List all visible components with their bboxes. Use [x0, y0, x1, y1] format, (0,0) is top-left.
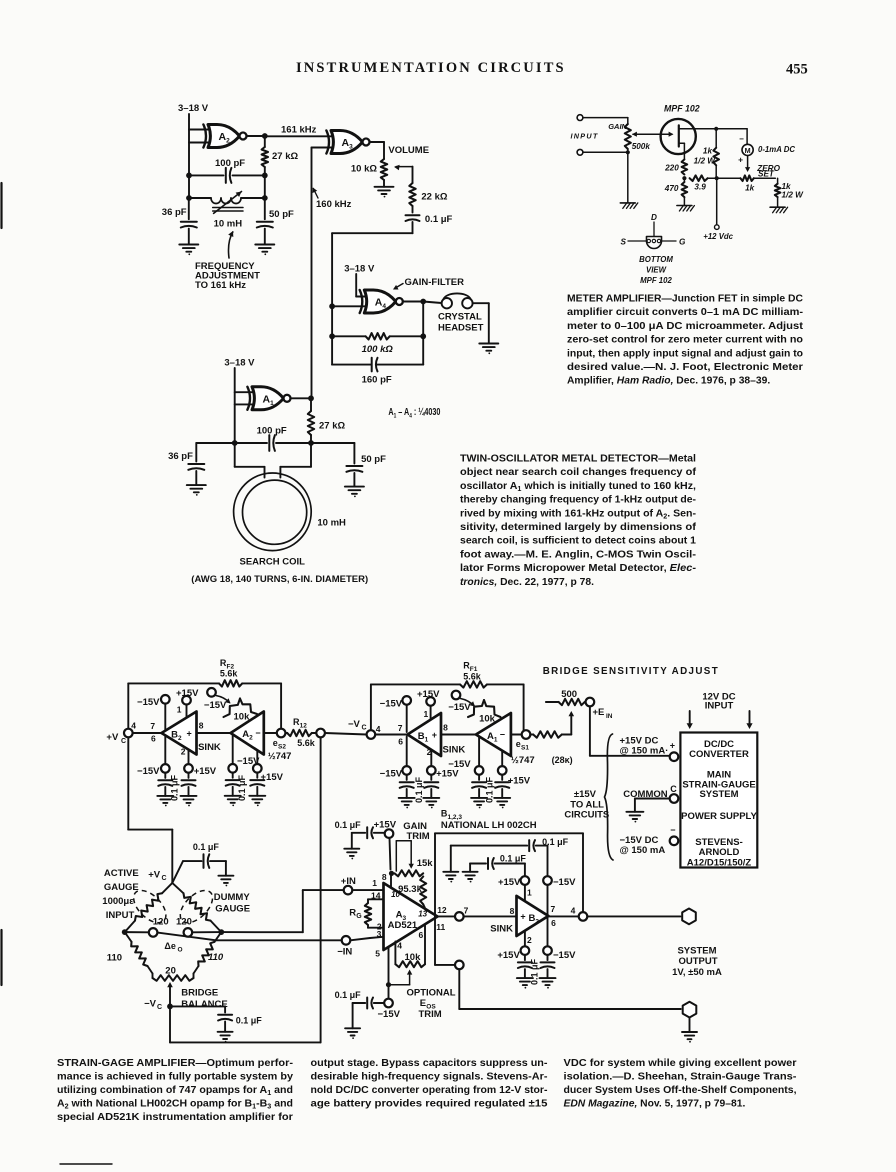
label +15V (A2 bottom)	[261, 772, 284, 783]
wire B3 output to pin4 terminal	[548, 915, 578, 917]
node junction A1 row right	[308, 440, 314, 446]
dashed ellipse active gauge	[128, 885, 172, 929]
gain trim loop	[396, 841, 414, 871]
svg-text:A1 – A4 : ¼4030: A1 – A4 : ¼4030	[388, 407, 440, 420]
node junction pot bottom	[626, 150, 630, 154]
resistor 470	[664, 178, 687, 205]
svg-text:ACTIVE: ACTIVE	[104, 868, 139, 879]
arrow frequency-adjustment callout	[228, 231, 233, 258]
label pin 10 italic	[391, 890, 400, 899]
svg-text:2: 2	[181, 747, 186, 757]
wire terminal7 to B3 input	[464, 915, 517, 917]
label -15V top (B1)	[380, 699, 403, 710]
label 100 pF (A2)	[215, 158, 245, 169]
svg-text:BRIDGE: BRIDGE	[181, 987, 218, 998]
label 120 right	[176, 916, 192, 927]
svg-text:4: 4	[571, 905, 576, 915]
svg-text:sitivity, determined largely b: sitivity, determined largely by dimensio…	[460, 522, 697, 533]
wire supply vertical into A1 inputs	[235, 368, 254, 443]
wire hex to ground	[689, 1018, 691, 1033]
svg-text:+: +	[432, 730, 437, 740]
svg-text:10 kΩ: 10 kΩ	[351, 164, 377, 175]
svg-text:BOTTOM: BOTTOM	[639, 255, 673, 264]
svg-text:470: 470	[664, 184, 679, 193]
svg-text:BRIDGE SENSITIVITY ADJUST: BRIDGE SENSITIVITY ADJUST	[543, 666, 718, 677]
svg-text:±15V: ±15V	[574, 789, 597, 800]
label pin 6 (A3)	[419, 930, 424, 940]
svg-text:STRAIN-GAGE AMPLIFIER—Optimum: STRAIN-GAGE AMPLIFIER—Optimum perfor-	[57, 1058, 294, 1069]
svg-text:VIEW: VIEW	[646, 266, 667, 275]
potentiometer 10k Eos trim	[395, 925, 425, 968]
ground (bypass 1)	[443, 872, 458, 883]
caption METER AMPLIFIER	[567, 294, 804, 387]
terminal -15V bottom (B3)	[543, 946, 552, 955]
label 100 pF (A1)	[257, 425, 287, 436]
svg-text:thereby changing frequency of: thereby changing frequency of 1-kHz outp…	[460, 495, 697, 506]
label RF1	[463, 661, 482, 682]
label SEARCH COIL	[240, 557, 306, 568]
svg-text:search coil, is sufficient to: search coil, is sufficient to detect coi…	[460, 536, 696, 547]
page header title	[296, 60, 566, 76]
label POWER SUPPLY	[681, 811, 757, 822]
wire B1 pin leads top	[407, 705, 431, 732]
terminal es2	[277, 729, 286, 738]
svg-text:+12 Vdc: +12 Vdc	[703, 232, 733, 241]
svg-text:20: 20	[165, 966, 176, 977]
resistor R12 5.6k	[285, 730, 316, 736]
svg-text:10 mH: 10 mH	[214, 219, 243, 230]
svg-text:isolation.—D. Sheehan, Strain-: isolation.—D. Sheehan, Strain-Gauge Tran…	[564, 1071, 798, 1082]
label B123 NATIONAL LH002CH	[441, 809, 537, 832]
label 110 left	[107, 953, 122, 964]
svg-text:+15V: +15V	[436, 769, 459, 780]
label INPUT	[571, 132, 599, 141]
svg-text:3–18 V: 3–18 V	[344, 263, 375, 274]
svg-text:7: 7	[150, 721, 155, 731]
label -15V offset (A1)	[448, 702, 471, 713]
wire A3 RC to A4 input	[332, 222, 412, 306]
svg-text:−: −	[739, 135, 744, 144]
svg-text:1k: 1k	[703, 147, 713, 156]
svg-text:+15V: +15V	[508, 776, 531, 787]
supply label 3-18V (A2)	[178, 103, 209, 114]
wire A2 output to es2	[264, 732, 277, 734]
op-amp A3 AD521	[384, 883, 438, 950]
svg-text:−15V: −15V	[448, 759, 471, 770]
transistor Q1 MPF102	[661, 119, 717, 159]
ground (headset)	[479, 344, 498, 355]
potentiometer GAIN 500k	[608, 122, 650, 153]
capacitor 100 pF (A2)	[226, 168, 232, 183]
svg-text:−V: −V	[144, 999, 157, 1010]
svg-text:+15V: +15V	[497, 950, 520, 961]
potentiometer VOLUME 10 kOhm	[351, 159, 387, 180]
svg-text:TRIM: TRIM	[419, 1009, 442, 1020]
svg-text:−15V: −15V	[137, 766, 160, 777]
svg-text:1/2 W: 1/2 W	[782, 191, 805, 200]
label SYSTEM OUTPUT	[672, 946, 722, 979]
svg-text:e: e	[516, 739, 521, 749]
label es2	[273, 738, 287, 751]
label +15V top (B2)	[176, 688, 199, 699]
svg-text:−15V: −15V	[204, 700, 227, 711]
label -15V offset (A2)	[204, 700, 227, 711]
label BRIDGE BALANCE	[181, 987, 227, 1010]
label +Vc (bridge)	[148, 870, 166, 883]
svg-text:A12/D15/150/Z: A12/D15/150/Z	[687, 857, 752, 868]
svg-text:INSTRUMENTATION CIRCUITS: INSTRUMENTATION CIRCUITS	[296, 60, 566, 76]
svg-text:6: 6	[398, 737, 403, 747]
ground (common)	[626, 812, 643, 823]
label MPF102	[664, 104, 700, 114]
wire 100pF feedback row (A1)	[196, 442, 354, 444]
wire supply into A4	[356, 274, 366, 297]
label -15V (A2 bottom)	[237, 756, 260, 767]
label +EIN	[593, 707, 613, 720]
potentiometer 15k gain trim	[395, 870, 424, 876]
svg-text:GAUGE: GAUGE	[215, 904, 250, 915]
label 1k (zero set)	[745, 183, 755, 192]
wire pin 5 to -15V	[388, 947, 390, 999]
terminal +15V (A3)	[385, 829, 394, 838]
terminal +Vc	[124, 729, 133, 738]
svg-text:10k: 10k	[405, 952, 422, 963]
svg-text:500k: 500k	[632, 142, 651, 151]
svg-text:−V: −V	[348, 719, 361, 730]
svg-text:27 kΩ: 27 kΩ	[272, 151, 298, 162]
svg-text:10k: 10k	[479, 714, 496, 725]
wire 100pF feedback row	[189, 174, 265, 176]
svg-text:3–18 V: 3–18 V	[178, 103, 209, 114]
label -15V DC @150mA	[620, 835, 666, 856]
label pin 13 italic	[418, 909, 427, 918]
svg-text:G: G	[356, 913, 362, 920]
terminal input lower	[577, 149, 583, 155]
svg-text:−15V: −15V	[448, 702, 471, 713]
svg-text:−: −	[255, 728, 260, 738]
svg-text:utilizing combination of 747 o: utilizing combination of 747 opamps for …	[57, 1085, 293, 1097]
wire output to connector	[587, 915, 680, 917]
svg-text:S2: S2	[278, 744, 286, 751]
svg-text:120: 120	[153, 916, 169, 927]
resistor 1k 1/2W (drain)	[694, 129, 719, 178]
terminal bridge output left	[149, 928, 158, 937]
label pin 6 (B1)	[398, 737, 403, 747]
label R12	[293, 717, 316, 748]
svg-text:foot away.—M. E. Anglin, C-MOS: foot away.—M. E. Anglin, C-MOS Twin Osci…	[460, 549, 697, 560]
package bottom view MPF102	[621, 213, 686, 249]
bypass capacitors and grounds (A1)	[471, 775, 510, 809]
svg-text:0.1 μF: 0.1 μF	[425, 214, 453, 225]
wiper arrow offset pot (A2)	[216, 696, 231, 704]
svg-text:7: 7	[551, 904, 556, 914]
label 0.1uF (bypass 2)	[500, 854, 527, 864]
wire B2 pin leads top	[165, 704, 186, 731]
terminal +EIN	[586, 698, 595, 707]
bypass capacitors and grounds (B1)	[399, 775, 440, 809]
wire A1 output to junction	[291, 397, 312, 399]
svg-text:7: 7	[464, 906, 469, 916]
wire inductor row	[189, 197, 265, 199]
svg-text:2: 2	[527, 935, 532, 945]
svg-text:@ 150 mA·: @ 150 mA·	[620, 745, 669, 756]
wire headset to ground	[473, 303, 489, 343]
svg-text:1/2 W: 1/2 W	[694, 157, 717, 166]
svg-text:50 pF: 50 pF	[269, 209, 294, 220]
label pin 4 (A3)	[397, 940, 402, 950]
node junction left 100pF row	[186, 173, 192, 179]
svg-text:0.1 μF: 0.1 μF	[335, 820, 362, 830]
wire A3 lower input from 160kHz line	[312, 148, 334, 400]
svg-text:1: 1	[177, 704, 182, 714]
label pin 14 (A3)	[371, 890, 381, 900]
label -Vc	[348, 719, 367, 732]
label es1	[516, 739, 530, 752]
svg-text:36 pF: 36 pF	[162, 207, 187, 218]
label +Vc	[106, 732, 126, 745]
label coil spec	[191, 574, 368, 585]
gate A2 (1/4 4030)	[203, 125, 246, 148]
potentiometer 20 bridge balance	[153, 966, 194, 981]
svg-text:SEARCH COIL: SEARCH COIL	[240, 557, 306, 568]
terminal optional Eos trim	[455, 961, 464, 970]
arrow gain-filter callout	[393, 284, 403, 290]
resistor 28k output	[530, 731, 571, 737]
wire +Vc to B2	[133, 732, 161, 734]
terminal converter minus	[670, 837, 679, 846]
svg-text:(AWG 18, 140 TURNS, 6-IN. DIAM: (AWG 18, 140 TURNS, 6-IN. DIAMETER)	[191, 574, 368, 585]
svg-text:1k: 1k	[745, 183, 755, 192]
wire Eos terminal to output ground rail	[459, 969, 681, 1009]
label pin 2 (B1)	[427, 747, 432, 757]
ground (A3 -15V cap)	[345, 1028, 360, 1039]
svg-text:E: E	[420, 998, 426, 1009]
node bridge right	[218, 929, 224, 935]
wire +IN to pin 1	[352, 889, 383, 891]
svg-text:0.1 μF: 0.1 μF	[237, 774, 247, 801]
label delta e0	[164, 941, 182, 954]
label 1/2 747 (A1)	[511, 755, 535, 766]
capacitor 50 pF (A2)	[257, 198, 294, 245]
svg-text:rived by mixing with 161-kHz o: rived by mixing with 161-kHz output of A…	[460, 508, 697, 520]
label +15V bottom (B1)	[436, 769, 459, 780]
wire pin 12 feedback rail	[435, 833, 583, 916]
terminal input upper	[577, 115, 583, 121]
gate A3 (1/4 4030)	[326, 131, 369, 154]
label pin 5 (A3)	[375, 949, 380, 959]
label +IN	[341, 876, 356, 887]
wire B3 pin leads top	[525, 885, 548, 915]
search coil 10 mH	[234, 473, 312, 551]
bypass capacitors and grounds (B2)	[157, 773, 196, 807]
label pin 12 (A3)	[437, 905, 447, 915]
svg-text:M: M	[745, 146, 751, 155]
resistor 3.9	[690, 175, 717, 191]
svg-text:22 kΩ: 22 kΩ	[421, 191, 447, 202]
label STEVENS-ARNOLD	[695, 837, 743, 858]
ground (A3 +15V cap)	[344, 849, 359, 860]
node pin 8 junction	[389, 871, 394, 876]
label 0.1uF (-Vc)	[236, 1015, 263, 1025]
svg-text:11: 11	[436, 922, 445, 932]
ground (1k right)	[770, 207, 788, 213]
svg-text:−: −	[500, 730, 505, 740]
dashed ellipse dummy gauge	[174, 885, 218, 929]
terminal converter plus	[670, 752, 679, 761]
brace +-15V to all circuits	[605, 734, 614, 860]
svg-text:G: G	[679, 238, 686, 247]
wire R12 node to B1	[325, 733, 408, 735]
svg-text:−15V: −15V	[380, 699, 403, 710]
offset pot 10k (A1)	[468, 700, 501, 725]
svg-text:3: 3	[377, 929, 382, 939]
wiper arrow Eos trim	[389, 970, 413, 985]
wiper arrow volume pot	[394, 165, 413, 171]
label +12 Vdc	[703, 232, 733, 241]
svg-text:EDN Magazine, Nov. 5, 1977, p: EDN Magazine, Nov. 5, 1977, p 79–81.	[564, 1098, 746, 1109]
svg-text:C: C	[157, 1004, 162, 1011]
svg-text:8: 8	[199, 720, 204, 730]
node junction left inductor row	[186, 195, 192, 201]
svg-text:7: 7	[398, 723, 403, 733]
wire B3 pin leads bottom	[525, 918, 548, 947]
node bridge left	[122, 929, 128, 935]
svg-text:50 pF: 50 pF	[361, 454, 386, 465]
wire +12Vdc feed	[716, 178, 718, 225]
svg-text:0.1 μF: 0.1 μF	[335, 990, 362, 1000]
node junction A1 output	[308, 395, 314, 401]
svg-text:+15V: +15V	[194, 766, 217, 777]
wiper arrow offset pot (A1)	[461, 699, 476, 707]
terminal -IN	[342, 936, 351, 945]
resistor 27 kOhm (A1)	[308, 398, 346, 443]
ground (50 pF A2)	[255, 245, 274, 256]
terminal -Vc node	[367, 730, 376, 739]
bypass capacitors and grounds (B3)	[517, 955, 556, 989]
label COMMON	[623, 789, 667, 800]
gate A4 (1/4 4030)	[360, 290, 403, 313]
label pin 2 (B2)	[181, 747, 186, 757]
label DUMMY GAUGE	[214, 892, 251, 915]
wire input top to gain pot	[583, 118, 628, 124]
svg-text:POWER SUPPLY: POWER SUPPLY	[681, 811, 757, 822]
svg-text:12: 12	[437, 905, 447, 915]
svg-text:R: R	[349, 908, 356, 919]
bypass wire 2 (B3 +15V)	[470, 858, 525, 876]
ground (output)	[682, 1032, 697, 1043]
arrow 12V input right	[746, 711, 752, 729]
svg-text:1V, ±50 mA: 1V, ±50 mA	[672, 967, 722, 978]
svg-text:4: 4	[376, 724, 381, 734]
label 160 kHz	[316, 199, 352, 210]
label pin 8 (B1)	[443, 723, 448, 733]
svg-text:6: 6	[419, 930, 424, 940]
svg-text:−15V: −15V	[378, 1009, 401, 1020]
label -15V bottom (B2)	[137, 766, 160, 777]
resistor 1k 1/2W (right)	[775, 178, 804, 207]
label pin 6 (B3)	[551, 918, 556, 928]
svg-text:+V: +V	[106, 732, 119, 743]
svg-text:160 pF: 160 pF	[362, 375, 392, 386]
label pin 1 (B3)	[527, 887, 532, 897]
label pin 2 (A3)	[377, 922, 382, 932]
ground (volume pot)	[375, 187, 394, 198]
feedback resistor RF2 5.6k	[128, 680, 281, 729]
svg-text:C: C	[121, 738, 126, 745]
arrow 160kHz callout	[313, 188, 319, 199]
svg-text:+E: +E	[593, 707, 605, 718]
wire A4 output node	[403, 302, 442, 304]
wire -Vc bottom rail	[170, 737, 321, 1042]
label -Vc (bridge)	[144, 999, 162, 1012]
wiper arrow bridge sensitivity	[569, 711, 575, 735]
svg-text:CRYSTAL: CRYSTAL	[438, 312, 482, 323]
wire drain rail to meter	[716, 129, 747, 145]
svg-text:AD521: AD521	[388, 920, 418, 931]
bridge arm bottom-left 110	[125, 932, 153, 978]
label 95.3k	[398, 884, 422, 895]
label pin 3 (A3)	[377, 929, 382, 939]
label BRIDGE SENSITIVITY ADJUST	[543, 666, 718, 677]
terminal -15V (A3)	[384, 999, 393, 1008]
svg-text:160 kHz: 160 kHz	[316, 199, 352, 210]
label 0.1uF rotated (B1)	[414, 776, 424, 803]
svg-text:INPUT: INPUT	[571, 132, 599, 141]
svg-text:1000με: 1000με	[102, 896, 134, 907]
svg-text:C: C	[670, 784, 677, 794]
svg-text:output stage. Bypass capacitor: output stage. Bypass capacitors suppress…	[311, 1058, 549, 1069]
wire pot to ground	[627, 152, 629, 203]
svg-text:SYSTEM: SYSTEM	[677, 946, 716, 957]
svg-text:−15V: −15V	[553, 877, 576, 888]
ground (50 pF A1)	[345, 487, 364, 498]
label minus sign	[670, 825, 675, 835]
DC/DC converter box	[680, 733, 757, 868]
label 0-1mA DC	[758, 145, 795, 154]
label +15V DC @150mA	[620, 736, 669, 757]
svg-text:VOLUME: VOLUME	[388, 145, 429, 156]
svg-text:MPF 102: MPF 102	[664, 104, 700, 114]
label A1-A4 quarter 4030	[388, 407, 440, 420]
terminal R12 right node	[316, 729, 325, 738]
svg-text:4: 4	[131, 721, 136, 731]
label RG	[349, 908, 362, 921]
variable inductor 10 mH	[211, 192, 243, 214]
svg-text:6: 6	[551, 918, 556, 928]
resistor 100 kOhm (A4)	[332, 333, 423, 355]
potentiometer 500 bridge sensitivity	[546, 689, 585, 705]
label pin 1 (B2)	[177, 704, 182, 714]
svg-text:amplifier circuit converts 0–1: amplifier circuit converts 0–1 mA DC mil…	[567, 307, 804, 318]
terminal bridge output right	[184, 928, 193, 937]
svg-text:S: S	[621, 238, 627, 247]
wire +15V to pin 8	[390, 838, 392, 888]
supply label 3-18V (A4)	[344, 263, 375, 274]
node junction source divider	[682, 176, 686, 180]
label 10 mH (A2)	[214, 219, 243, 230]
scan artifact left edge mark	[0, 183, 2, 985]
terminal +IN	[344, 886, 353, 895]
wire B2 pin leads bottom	[165, 735, 188, 764]
svg-text:5: 5	[375, 949, 380, 959]
terminal pin 4 output	[579, 912, 588, 921]
connector hex system output	[682, 909, 696, 925]
svg-text:METER AMPLIFIER—Junction FET i: METER AMPLIFIER—Junction FET in simple D…	[567, 294, 804, 305]
label 0.1uF (+Vc)	[193, 842, 220, 852]
svg-text:0.1 μF: 0.1 μF	[236, 1015, 263, 1025]
node junction A4 output	[420, 299, 426, 305]
svg-text:object near search coil change: object near search coil changes frequenc…	[460, 467, 697, 478]
